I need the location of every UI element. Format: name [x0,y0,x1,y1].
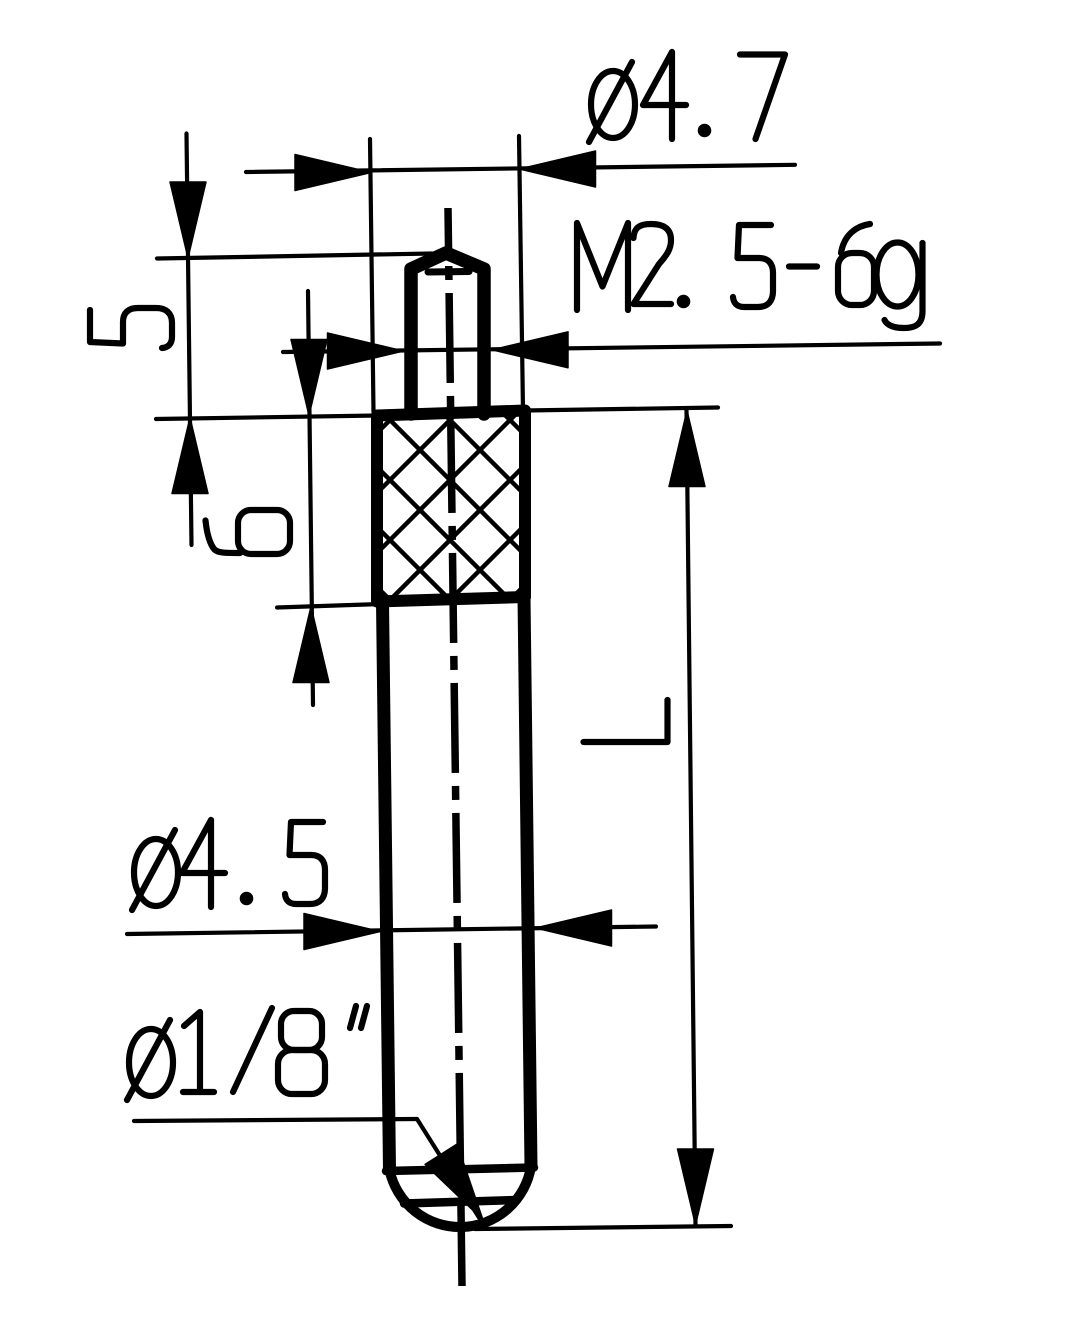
dimension line O4.7 [246,165,795,172]
centerline [448,208,462,1286]
knurl body outline [377,411,525,602]
tip chord upper [386,1168,534,1172]
arrow M2.5-6g right [492,332,568,368]
arrow O4.7 right [520,151,596,187]
extension line L top [525,408,718,411]
value label O4.7 [589,62,635,142]
arrow dim 5 top [170,182,206,258]
value label O4.5 [132,830,178,910]
shaft right edge [524,597,531,1167]
extension line knurl bottom left [277,604,381,608]
tip chord lower [404,1200,517,1204]
arrow dim L top [669,411,705,487]
arrow dim L bottom [678,1149,714,1225]
arrow M2.5-6g left [328,333,404,369]
extension line stud top [157,254,432,259]
dimension line 5 vertical [187,134,192,546]
shaft left edge [383,602,390,1171]
threaded stud outline [411,253,484,414]
value label M2.5-6g [577,223,628,310]
extension line L bottom [475,1226,731,1229]
arrow dim 6 bottom [293,607,329,683]
value label 6 rotated [206,510,291,554]
value label 5 rotated [90,308,172,348]
arrow O4.7 left [295,155,371,191]
arrow O4.5 left [304,914,380,950]
stud chamfer line [428,268,469,276]
arrow dim 5 bottom [172,418,208,494]
ball tip arc [390,1167,532,1228]
arrow O4.5 right [536,910,612,946]
leader line O1/8 horizontal [134,1119,417,1121]
value label L rotated [584,700,668,742]
arrow leader O1/8 [425,1144,483,1220]
dimension line L vertical [687,411,696,1226]
dimension line 6 vertical [308,291,313,705]
extension line knurl top left [156,416,377,420]
dimension line M2.5-6g [283,344,940,353]
extension line knurl left [370,139,374,412]
knurl crosshatch [145,265,755,815]
leader line O1/8 diagonal [417,1119,479,1218]
arrow dim 6 top [291,340,327,416]
extension line knurl right [519,136,523,411]
value label O1/8 inch [127,1020,173,1100]
dimension line O4.5 [127,927,656,935]
